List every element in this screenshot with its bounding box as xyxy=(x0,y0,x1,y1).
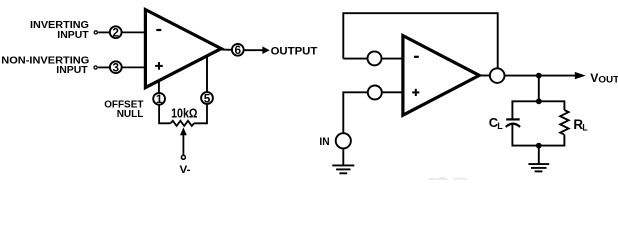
label INVERTING INPUT xyxy=(30,20,89,41)
ground at IN xyxy=(332,149,354,173)
svg-text:INPUT: INPUT xyxy=(57,30,89,41)
terminal V- xyxy=(181,155,185,159)
wire potentiometer to pin5 xyxy=(194,105,207,124)
ground at load xyxy=(528,146,549,172)
label VOUT xyxy=(590,71,618,85)
wire apex to circle6 xyxy=(222,49,232,51)
faint cut-off text artifact at bottom edge xyxy=(428,177,449,180)
output arrow wire xyxy=(245,46,270,54)
wire capacitor to bottom bar xyxy=(511,125,513,147)
potentiometer wiper arrow xyxy=(180,127,187,155)
wire non-inverting input xyxy=(343,92,404,132)
op-amp U1 triangle xyxy=(145,10,221,88)
svg-text:V-: V- xyxy=(180,164,191,176)
wire to capacitor CL xyxy=(511,100,513,118)
label NON-INVERTING INPUT xyxy=(1,56,89,77)
load top bar wire xyxy=(512,100,564,102)
junction node dot top bar xyxy=(536,98,542,104)
wire apex to output circle xyxy=(477,75,491,77)
svg-text:3: 3 xyxy=(113,61,120,75)
label OFFSET NULL xyxy=(104,99,144,119)
svg-text:6: 6 xyxy=(235,43,242,57)
pin 6 circle xyxy=(232,43,244,57)
label RL xyxy=(573,117,588,133)
svg-text:OUT: OUT xyxy=(598,74,618,84)
capacitor CL xyxy=(506,119,520,127)
svg-text:NULL: NULL xyxy=(117,109,144,120)
U1 minus sign xyxy=(156,29,161,31)
svg-text:10kΩ: 10kΩ xyxy=(171,106,197,120)
wire inverting input xyxy=(343,58,404,60)
label CL xyxy=(489,115,504,131)
svg-text:1: 1 xyxy=(156,92,163,106)
U2 plus sign xyxy=(412,89,419,96)
wire pin1 to potentiometer xyxy=(159,105,170,123)
pin 2 circle xyxy=(110,26,122,40)
wire terminal2 to circle2 xyxy=(98,31,109,33)
wire circle2 to op-amp xyxy=(122,31,147,33)
feedback wire loop xyxy=(343,13,497,68)
svg-text:INPUT: INPUT xyxy=(56,65,88,76)
inverting input pin circle xyxy=(368,51,382,65)
U1 plus sign xyxy=(155,62,163,70)
op-amp U2 triangle xyxy=(403,36,479,116)
wire output node down to load xyxy=(538,76,540,102)
wire resistor to bottom bar xyxy=(563,135,565,147)
svg-text:L: L xyxy=(497,121,503,131)
IN terminal circle xyxy=(336,133,351,148)
output pin circle xyxy=(490,68,505,83)
potentiometer R1 zigzag xyxy=(171,121,195,126)
wire to resistor RL xyxy=(563,100,565,110)
pin 1 circle xyxy=(153,92,165,106)
resistor RL zigzag xyxy=(560,110,568,135)
U2 minus sign xyxy=(414,56,419,58)
wire pin5 from triangle xyxy=(206,56,208,91)
wire circle3 to op-amp xyxy=(123,66,148,68)
svg-text:5: 5 xyxy=(204,91,211,105)
pin 3 circle xyxy=(110,61,122,75)
svg-text:2: 2 xyxy=(112,26,119,40)
non-inverting input pin circle xyxy=(368,86,382,100)
svg-text:L: L xyxy=(582,123,588,133)
pin 5 circle xyxy=(201,91,213,105)
wire terminal3 to circle3 xyxy=(98,66,109,68)
terminal pin 3 xyxy=(94,66,97,69)
junction node dot at output xyxy=(536,73,542,79)
output wire with arrow to VOUT xyxy=(505,72,586,79)
terminal pin 2 xyxy=(94,31,97,34)
load bottom bar wire xyxy=(512,145,564,147)
svg-text:OUTPUT: OUTPUT xyxy=(271,45,318,57)
svg-text:IN: IN xyxy=(319,136,329,148)
wire pin1 from triangle xyxy=(158,80,160,94)
junction node dot bottom bar xyxy=(536,143,542,149)
